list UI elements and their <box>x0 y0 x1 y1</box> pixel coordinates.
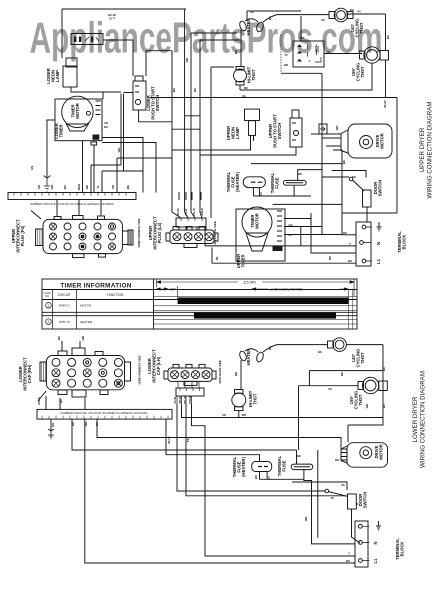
upper labels <box>11 19 407 269</box>
svg-text:TMR-CY: TMR-CY <box>59 304 71 308</box>
svg-text:2R: 2R <box>288 233 292 237</box>
svg-text:PK: PK <box>186 438 190 442</box>
svg-text:MOTOR: MOTOR <box>380 133 385 149</box>
svg-text:SWITCH: SWITCH <box>378 180 383 197</box>
svg-text:BK: BK <box>340 372 344 376</box>
svg-text:1R: 1R <box>330 496 334 500</box>
wire <box>117 116 200 192</box>
ground upper terminal <box>377 222 382 231</box>
wire <box>211 67 356 263</box>
svg-text:2R: 2R <box>326 50 330 54</box>
side title upper <box>419 102 434 199</box>
svg-text:BU: BU <box>382 367 386 371</box>
svg-text:OFF: OFF <box>170 287 176 291</box>
motor DRIVE MOTOR upper <box>348 124 392 158</box>
svg-text:NUMBERS INDICATE LOCATION OF W: NUMBERS INDICATE LOCATION OF WIRES IN HA… <box>30 202 114 206</box>
wire <box>83 138 157 193</box>
svg-text:WH: WH <box>335 126 339 131</box>
wire <box>263 345 328 352</box>
svg-text:2R: 2R <box>328 387 332 391</box>
wire <box>280 35 282 73</box>
svg-text:THST: THST <box>253 393 258 404</box>
svg-text:MOTOR: MOTOR <box>255 213 260 229</box>
svg-text:TIMER INFORMATION: TIMER INFORMATION <box>60 283 131 290</box>
connector LOWER INTERCONNECT CAP RH <box>38 348 131 401</box>
wire <box>281 72 322 74</box>
svg-text:BK: BK <box>318 350 322 354</box>
svg-text:FUSE: FUSE <box>275 177 280 188</box>
thermostat HI-LIMIT THST lower <box>232 393 246 407</box>
wire <box>186 404 347 496</box>
wire <box>121 93 172 172</box>
svg-text:(HEATER): (HEATER) <box>241 457 246 477</box>
svg-text:T: T <box>348 552 350 556</box>
connector strip LH lower <box>176 388 204 396</box>
svg-text:L1: L1 <box>376 258 381 264</box>
svg-text:BK: BK <box>343 231 347 235</box>
svg-text:BR: BR <box>234 372 238 376</box>
svg-text:BU: BU <box>268 346 272 350</box>
svg-text:GY-T: GY-T <box>109 17 116 21</box>
svg-text:AppliancePartsPros.com: AppliancePartsPros.com <box>30 14 383 63</box>
svg-text:BKR: BKR <box>77 184 81 190</box>
wire <box>324 53 362 55</box>
svg-text:CAP (RH): CAP (RH) <box>27 364 32 383</box>
thermal fuse (heater) lower <box>252 462 272 472</box>
svg-text:YL: YL <box>96 185 100 189</box>
svg-text:THST: THST <box>360 352 365 363</box>
connector UPPER INTERCONNECT PLUG P4 <box>31 211 133 258</box>
svg-text:HEATER: HEATER <box>246 349 251 366</box>
connector LOWER INTERCONNECT CAP LH <box>164 364 216 385</box>
svg-text:2 MIN COOL PERIOD: 2 MIN COOL PERIOD <box>271 287 303 291</box>
svg-text:BU: BU <box>254 475 258 479</box>
svg-text:FUSE: FUSE <box>282 460 287 471</box>
svg-text:APPLIANCE SIDE: APPLIANCE SIDE <box>218 360 222 384</box>
wire <box>238 411 240 418</box>
wire <box>179 227 206 230</box>
svg-text:WR: WR <box>365 404 369 409</box>
wire <box>91 165 121 192</box>
svg-text:115 MIN.: 115 MIN. <box>243 280 257 284</box>
wire <box>296 450 298 464</box>
svg-text:(HEATER): (HEATER) <box>235 172 240 192</box>
svg-text:TIMER: TIMER <box>59 124 64 137</box>
wire <box>284 213 356 253</box>
wire <box>72 419 297 450</box>
wire <box>311 134 341 146</box>
wire <box>342 234 356 236</box>
thermostat HI-LIMIT THST upper <box>234 69 247 82</box>
wire <box>185 9 188 218</box>
svg-text:2: 2 <box>48 320 50 324</box>
wire <box>284 234 342 236</box>
svg-text:BK: BK <box>335 458 339 462</box>
thermal fuse lower <box>291 464 313 470</box>
wire <box>179 192 201 200</box>
upper small wire labels <box>30 8 390 263</box>
svg-text:SWITCH: SWITCH <box>155 95 160 112</box>
svg-text:PU-B: PU-B <box>173 397 177 404</box>
svg-text:T: T <box>349 242 351 246</box>
svg-text:BK: BK <box>352 175 356 179</box>
svg-text:THST: THST <box>251 69 256 80</box>
svg-text:BK: BK <box>126 185 130 189</box>
neon lamp UPPER NEON LAMP <box>245 109 260 121</box>
svg-text:BK: BK <box>95 422 99 426</box>
wire <box>299 386 359 450</box>
svg-text:WIRING CONNECTION DIAGRAM: WIRING CONNECTION DIAGRAM <box>427 102 434 199</box>
svg-text:LAMP: LAMP <box>55 70 60 82</box>
svg-text:THST: THST <box>358 394 363 405</box>
motor DRIVE MOTOR lower <box>347 443 388 468</box>
svg-text:OR: OR <box>111 185 115 189</box>
svg-text:BR: BR <box>234 50 238 54</box>
wire <box>191 33 237 218</box>
svg-text:5E: 5E <box>215 256 219 260</box>
terminal strip upper <box>8 193 136 200</box>
wire <box>240 30 242 67</box>
svg-text:MOTOR: MOTOR <box>75 103 80 119</box>
svg-text:50A: 50A <box>299 36 304 40</box>
wire <box>251 164 342 205</box>
wire <box>240 64 372 91</box>
svg-text:8A: 8A <box>250 10 254 14</box>
wire <box>102 171 143 192</box>
thermal fuse (heater) upper <box>243 177 265 188</box>
wire <box>103 40 133 76</box>
svg-text:GY: GY <box>267 476 271 480</box>
svg-text:PK-B: PK-B <box>178 397 182 404</box>
svg-text:L1: L1 <box>373 558 378 564</box>
terminal block lower <box>355 521 368 567</box>
svg-text:BLOCK: BLOCK <box>402 235 407 250</box>
svg-text:BU-R: BU-R <box>176 209 180 216</box>
wire <box>46 341 85 409</box>
svg-text:WR: WR <box>304 517 308 522</box>
arrow box <box>319 124 327 134</box>
wire <box>200 40 240 218</box>
svg-text:+59: +59 <box>288 223 293 227</box>
svg-text:BLOCK: BLOCK <box>400 542 405 557</box>
svg-text:2R: 2R <box>222 413 226 417</box>
wire <box>71 87 121 99</box>
svg-text:BU: BU <box>172 88 176 92</box>
wire <box>342 14 397 213</box>
svg-text:BU: BU <box>57 336 61 340</box>
terminal block upper <box>356 222 371 266</box>
thermostat 155 CYCLING THST upper <box>364 47 380 63</box>
svg-text:MOTOR: MOTOR <box>80 304 92 308</box>
svg-text:NUMBERS INDICATE LOCATION OF W: NUMBERS INDICATE LOCATION OF WIRES IN HA… <box>60 411 147 415</box>
svg-text:WR-B: WR-B <box>37 397 41 405</box>
wire <box>284 227 322 246</box>
svg-text:UPPER DRYER: UPPER DRYER <box>419 127 426 172</box>
thermostat 155 CYCLING THST lower <box>362 377 378 393</box>
svg-text:NO.: NO. <box>45 294 50 298</box>
wire <box>85 419 355 563</box>
svg-text:GN: GN <box>51 423 55 427</box>
wire <box>61 9 63 58</box>
wire <box>240 360 242 389</box>
heater H1 upper <box>238 20 247 31</box>
svg-text:BK: BK <box>297 454 301 458</box>
wire <box>146 51 181 218</box>
svg-text:HEATER: HEATER <box>246 19 251 36</box>
wire <box>57 200 101 217</box>
connector UPPER INTERCONNECT PLUG L4 <box>166 227 218 248</box>
wire <box>166 419 260 461</box>
lower small wire labels <box>37 336 386 563</box>
svg-text:BU: BU <box>59 399 63 403</box>
svg-text:WH-R: WH-R <box>200 208 204 216</box>
wire <box>177 404 325 491</box>
neon lamp LOWER NEON LAMP <box>66 58 77 67</box>
svg-text:SWITCH: SWITCH <box>363 492 368 509</box>
thermostat 140 CYCLING THST lower <box>333 338 347 352</box>
switch UPPER PUSH TO START SWITCH <box>290 118 302 147</box>
wire <box>50 419 52 431</box>
svg-text:APPLIANCE SIDE: APPLIANCE SIDE <box>213 221 217 245</box>
svg-text:THST: THST <box>360 66 365 77</box>
svg-text:RD: RD <box>85 185 89 189</box>
caption strip lower <box>37 409 172 419</box>
door switch lower <box>325 489 329 493</box>
door switch upper <box>349 177 353 181</box>
svg-text:PLUG (P4): PLUG (P4) <box>20 225 25 246</box>
svg-text:BU: BU <box>382 404 386 408</box>
wire <box>304 450 355 544</box>
heater H2 lower <box>238 350 247 361</box>
ground lower terminal <box>376 521 381 530</box>
side title lower <box>412 371 427 468</box>
svg-text:MOTOR: MOTOR <box>379 444 384 460</box>
wire <box>247 11 301 41</box>
svg-text:WR: WR <box>50 185 54 190</box>
thermostat 140 CYCLING THST upper <box>334 8 348 22</box>
svg-text:BU-R: BU-R <box>383 101 387 108</box>
svg-text:BK: BK <box>298 172 302 176</box>
svg-text:BU: BU <box>104 125 108 129</box>
svg-text:GN: GN <box>37 185 41 189</box>
svg-text:BK: BK <box>193 88 197 92</box>
switch LOWER PUSH TO START SWITCH <box>133 81 146 110</box>
svg-text:WIRING CONNECTION DIAGRAM: WIRING CONNECTION DIAGRAM <box>420 371 427 468</box>
thermal fuse upper <box>283 180 306 185</box>
timer contact box upper <box>293 41 324 67</box>
svg-text:BU: BU <box>268 16 272 20</box>
svg-text:BU-R: BU-R <box>167 437 171 444</box>
svg-text:TIMER: TIMER <box>241 254 246 267</box>
svg-text:CAP (LH): CAP (LH) <box>156 356 161 375</box>
svg-text:PK-R: PK-R <box>184 209 188 216</box>
svg-text:BK: BK <box>346 559 350 563</box>
svg-text:WR: WR <box>84 422 88 427</box>
svg-text:WIRE HARNESS SIDE: WIRE HARNESS SIDE <box>137 218 141 247</box>
svg-text:BK: BK <box>244 86 248 90</box>
wire <box>263 15 329 22</box>
svg-text:WR: WR <box>185 58 189 63</box>
svg-text:FUNCTION: FUNCTION <box>107 293 124 297</box>
svg-text:1: 1 <box>48 304 50 308</box>
timing bar heater <box>194 313 336 319</box>
wire <box>352 509 361 543</box>
svg-text:WH-B: WH-B <box>188 396 192 404</box>
svg-text:HEATER: HEATER <box>80 320 93 324</box>
timer LOWER TIMER <box>55 99 102 141</box>
relay box K1 <box>71 34 103 45</box>
svg-text:BR: BR <box>284 63 288 67</box>
svg-text:LOWER DRYER: LOWER DRYER <box>412 396 419 442</box>
svg-text:GY: GY <box>259 192 263 196</box>
timer UPPER TIMER <box>236 209 285 261</box>
svg-text:GN: GN <box>30 166 34 170</box>
svg-text:SWITCH: SWITCH <box>277 123 282 140</box>
lower labels <box>18 349 405 564</box>
svg-text:PK-W: PK-W <box>183 396 187 404</box>
svg-text:CIRCUIT: CIRCUIT <box>58 293 71 297</box>
svg-text:BU: BU <box>63 185 67 189</box>
wire <box>309 371 383 386</box>
wire <box>150 97 397 99</box>
ground lower left <box>48 429 54 439</box>
svg-text:THST: THST <box>359 22 364 33</box>
ground upper left <box>44 176 51 192</box>
svg-text:PLUG (L4): PLUG (L4) <box>157 222 162 243</box>
svg-text:N: N <box>373 541 378 544</box>
wire <box>260 472 304 480</box>
timer information table <box>42 279 357 329</box>
svg-text:BK: BK <box>350 8 354 12</box>
wire <box>253 185 311 196</box>
connector small strip L4 <box>176 218 206 227</box>
svg-text:BU: BU <box>386 35 390 39</box>
wire <box>182 404 384 418</box>
wire <box>97 419 347 449</box>
svg-text:BK: BK <box>348 259 352 263</box>
svg-text:LAMP: LAMP <box>235 127 240 139</box>
svg-text:64: 64 <box>357 10 361 14</box>
svg-text:BK: BK <box>342 160 346 164</box>
wire <box>192 404 356 556</box>
svg-text:WR: WR <box>242 413 247 417</box>
svg-text:5M: 5M <box>328 255 332 260</box>
wire <box>333 150 342 235</box>
wire stub <box>177 381 199 404</box>
timing arrows <box>157 279 354 298</box>
wire <box>62 8 186 10</box>
svg-text:WR: WR <box>81 336 85 341</box>
svg-text:PK-W: PK-W <box>192 208 196 216</box>
svg-text:6A: 6A <box>321 18 325 22</box>
svg-text:TMR-TV: TMR-TV <box>59 320 70 324</box>
svg-text:8A: 8A <box>341 483 345 487</box>
svg-text:TV: TV <box>284 53 288 57</box>
svg-text:6A: 6A <box>242 94 246 98</box>
wire <box>346 345 383 442</box>
svg-text:N: N <box>376 242 381 245</box>
wire <box>341 453 347 461</box>
svg-text:WIRE HARNESS SIDE: WIRE HARNESS SIDE <box>138 355 142 384</box>
wire <box>205 227 356 246</box>
svg-text:WH: WH <box>117 148 121 153</box>
svg-text:BU: BU <box>71 422 75 426</box>
wire <box>366 207 368 222</box>
wire <box>322 171 366 178</box>
wire <box>321 73 323 234</box>
timing bar motor <box>178 298 349 305</box>
wire <box>47 120 55 176</box>
